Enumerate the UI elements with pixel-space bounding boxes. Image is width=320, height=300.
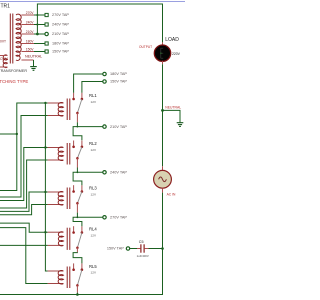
svg-text:C5: C5 (139, 240, 144, 244)
terminal 210V TAP (relay row) (103, 125, 128, 129)
label 220V (172, 52, 181, 56)
junction RL2 pole row (77, 171, 79, 173)
svg-text:12V: 12V (91, 193, 97, 197)
pin RL2 pole (76, 158, 78, 167)
wire RL4 pole jog to RL5 (73, 252, 82, 263)
svg-text:180V TAP: 180V TAP (52, 42, 69, 46)
svg-text:12V: 12V (91, 234, 97, 238)
terminal 270V TAP (45, 13, 69, 17)
relay RL5 switch (72, 263, 83, 286)
wire 270V tap row (34, 14, 45, 16)
relay RL5 coil (48, 267, 70, 289)
svg-text:TR1: TR1 (1, 3, 11, 9)
pin 270V tap (21, 11, 34, 15)
relay RL5 label (89, 264, 97, 269)
terminal 240V TAP (45, 23, 69, 27)
transformer TR1 core (10, 14, 13, 64)
wire RL2 row jog to next relay (73, 172, 103, 185)
svg-text:210V TAP: 210V TAP (52, 32, 69, 36)
wire RL1 row jog to next relay (73, 127, 103, 141)
wire AC source to bottom rail (0, 193, 163, 295)
junction RL1 pole row (77, 126, 79, 128)
wire 240V tap row (34, 24, 45, 26)
pin NEUTRAL (21, 55, 42, 60)
wire terminal to C5 (130, 248, 137, 250)
svg-text:220V: 220V (172, 52, 181, 56)
lamp LOAD (154, 42, 170, 64)
svg-text:TRANSFORMER: TRANSFORMER (0, 69, 27, 73)
svg-text:150V TAP: 150V TAP (107, 247, 124, 251)
relay RL3 switch (72, 185, 83, 204)
terminal 150V TAP (45, 50, 69, 54)
junction coil bus 147.5 (44, 146, 46, 148)
wire 210V tap row (34, 33, 45, 35)
svg-text:1uF/400V: 1uF/400V (137, 254, 149, 258)
junction RL3 pole row (77, 216, 79, 218)
wire RL1 pole to row (76, 122, 78, 126)
wire coil supply bus (45, 103, 47, 271)
svg-text:240V TAP: 240V TAP (52, 23, 69, 27)
relay RL3 coil voltage 12V (91, 193, 97, 197)
ground GND2 (177, 123, 184, 127)
svg-text:LOAD: LOAD (165, 37, 179, 43)
pin RL4 pole (76, 248, 78, 253)
relay RL4 label (89, 227, 97, 232)
svg-text:12V: 12V (91, 100, 97, 104)
pin 240V tap (21, 20, 34, 24)
wire RL1 NC to 180V TAP (74, 74, 103, 93)
relay RL3 label (89, 186, 97, 191)
svg-text:NEUTRAL: NEUTRAL (165, 105, 181, 109)
relay RL2 switch (72, 141, 83, 160)
svg-text:0VT: 0VT (0, 39, 6, 43)
relay RL1 coil (48, 99, 70, 121)
wire neutral branch (163, 110, 181, 122)
pin RL1 pole (76, 113, 78, 122)
terminal 270V TAP (relay row) (103, 216, 128, 220)
wire neutral to ground (33, 60, 35, 66)
svg-text:180V: 180V (26, 39, 35, 43)
wire RL3 coil top drive (0, 192, 48, 211)
svg-text:150V: 150V (26, 47, 35, 51)
relay RL5 coil voltage 12V (91, 271, 97, 275)
svg-text:AC IN: AC IN (167, 193, 176, 197)
label NEUTRAL net (165, 105, 181, 109)
svg-text:12V: 12V (91, 271, 97, 275)
svg-text:RL4: RL4 (89, 227, 97, 232)
svg-text:RL2: RL2 (89, 141, 97, 146)
relay RL2 label (89, 141, 97, 146)
svg-text:RL5: RL5 (89, 264, 97, 269)
wire RL3 coil bottom drive (0, 205, 48, 215)
pin RL5 pole (76, 285, 78, 292)
relay RL3 coil (48, 188, 70, 210)
svg-text:270V TAP: 270V TAP (52, 13, 69, 17)
wire RL5 coil bottom drive (0, 228, 48, 284)
wire RL5 pole to bottom rail (76, 293, 78, 295)
terminal 180V TAP (45, 42, 69, 46)
wire RL3 row jog to next relay (73, 217, 103, 226)
relay RL4 coil (48, 228, 70, 250)
svg-text:240V TAP: 240V TAP (110, 171, 127, 175)
svg-text:RL1: RL1 (89, 93, 97, 98)
transformer caption TRANSFORMER (0, 69, 27, 73)
relay RL2 coil (48, 143, 70, 165)
pin 150V tap (21, 47, 34, 51)
wire RL1 coil bottom drive (0, 116, 48, 198)
wire RL2 coil bottom drive (0, 160, 48, 208)
junction coil bus 103 (44, 102, 46, 104)
label AC IN (167, 193, 176, 197)
terminal 180V TAP (relay row) (103, 72, 128, 76)
svg-text:150V TAP: 150V TAP (52, 50, 69, 54)
svg-text:OUTPUT: OUTPUT (139, 45, 152, 49)
wire control feed RL1 (0, 133, 17, 135)
svg-text:ITCHING TYPE: ITCHING TYPE (0, 79, 28, 84)
pin 210V tap (21, 30, 34, 34)
relay RL1 switch (72, 93, 83, 115)
junction RL5 pole rail (76, 293, 79, 296)
svg-text:270V: 270V (26, 11, 35, 15)
wire output rail (37, 4, 162, 42)
svg-text:180V TAP: 180V TAP (110, 72, 127, 76)
label 1uF/400V (137, 254, 149, 258)
terminal 150V TAP (relay row) (103, 80, 128, 84)
AC source AC IN (154, 166, 172, 192)
label LOAD (165, 37, 179, 43)
pin RL3 pole (76, 203, 78, 212)
label C5 (139, 240, 144, 244)
transformer primary label COM (0, 57, 8, 61)
svg-text:COM: COM (0, 57, 8, 61)
relay RL2 coil voltage 12V (91, 148, 97, 152)
transformer TR1 primary winding (0, 55, 7, 68)
relay RL4 coil voltage 12V (91, 234, 97, 238)
terminal 150V TAP (cap row) (107, 247, 130, 251)
junction output-240V (36, 23, 38, 25)
wire RL4 coil bottom drive (0, 244, 48, 246)
transformer TR1 label (1, 3, 11, 9)
junction coil bus 192 (44, 191, 46, 193)
wire RL2 coil top drive (0, 148, 48, 201)
junction output-270V (36, 14, 38, 16)
capacitor C5 (137, 244, 149, 252)
wire RL1 NO to 150V TAP (82, 82, 103, 93)
transformer caption TCHING TYPE (0, 79, 28, 84)
junction control feed RL1 (16, 133, 18, 135)
wire RL1 coil top drive (0, 103, 48, 191)
junction neutral (161, 109, 164, 112)
wire 180V tap row (34, 43, 45, 45)
svg-text:270V TAP: 270V TAP (110, 216, 127, 220)
terminal 210V TAP (45, 32, 70, 36)
ground GND1 (30, 67, 37, 71)
junction output-210V (36, 33, 39, 36)
svg-text:NEUTRAL: NEUTRAL (25, 55, 42, 59)
svg-text:150V TAP: 150V TAP (110, 80, 127, 84)
wire RL3 pole to row (76, 213, 78, 218)
wire C5 to rail (149, 248, 163, 250)
transformer primary label 0V (0, 39, 6, 43)
svg-text:RL3: RL3 (89, 186, 97, 191)
svg-text:210V: 210V (26, 30, 35, 34)
wire lamp to AC source (162, 64, 164, 166)
wire RL2 pole to row (76, 168, 78, 173)
svg-text:240V: 240V (26, 20, 35, 24)
transformer TR1 secondary winding (16, 14, 21, 60)
svg-text:210V TAP: 210V TAP (110, 125, 127, 129)
junction coil bus 232.2 (44, 231, 46, 233)
pin 180V tap (21, 39, 34, 43)
relay RL1 coil voltage 12V (91, 100, 97, 104)
wire 150V tap row (34, 51, 45, 53)
junction C5 rail (161, 247, 164, 250)
wire RL4 coil top drive (0, 223, 48, 232)
svg-text:12V: 12V (91, 148, 97, 152)
relay RL4 switch (72, 226, 83, 249)
label OUTPUT (139, 45, 152, 49)
terminal 240V TAP (relay row) (103, 171, 128, 175)
relay RL1 label (89, 93, 97, 98)
